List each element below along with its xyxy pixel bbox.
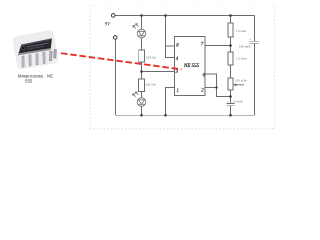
wire R1 to node pin7	[230, 37, 232, 52]
capacitor C2 10 мкФ	[227, 103, 235, 105]
wire pin 7 to node between R1 R2	[205, 45, 231, 47]
printed text	[27, 42, 49, 47]
wire pin 8 stub	[166, 45, 175, 47]
wire node OUT to pin 3	[142, 71, 175, 73]
wire rail to LED D1	[141, 16, 143, 30]
node OUT	[140, 70, 143, 73]
svg-text:+: +	[249, 37, 251, 41]
svg-text:1: 1	[177, 89, 179, 94]
node gnd-pin1	[164, 114, 167, 117]
wire bottom rail	[116, 114, 255, 116]
wire top rail	[115, 15, 255, 17]
wire rail to pins 8 and 4	[166, 16, 175, 58]
wire cap C1 bottom down to bottom rail	[254, 43, 256, 115]
front pins	[22, 56, 24, 67]
node pin7	[229, 44, 232, 47]
wire R4 to LED D2	[141, 92, 143, 98]
battery terminal plus	[111, 14, 115, 18]
svg-text:1.5 кОм: 1.5 кОм	[236, 29, 247, 33]
IC U1 NE 555 box	[175, 37, 206, 96]
red dashed callout line	[61, 53, 182, 69]
wire rail down to R1	[230, 16, 232, 24]
svg-text:1.5 кОм: 1.5 кОм	[236, 57, 247, 61]
wire pin 2 stub	[205, 87, 217, 89]
node rail-D1	[140, 14, 143, 17]
LED D1	[133, 24, 146, 38]
svg-text:+: +	[227, 99, 229, 103]
resistor R2 1.5 кОм	[228, 52, 233, 65]
wire R2 to potentiometer	[230, 65, 232, 78]
svg-text:10 мкФ: 10 мкФ	[233, 99, 244, 103]
node pin2-pin6	[215, 86, 217, 88]
LED D2	[133, 92, 146, 106]
drawing canvas dashed frame	[89, 6, 91, 129]
node rail-R1	[229, 14, 232, 17]
potentiometer R5 100 кОм	[228, 78, 233, 90]
svg-text:220 Ом: 220 Ом	[146, 55, 156, 59]
back pins	[54, 49, 57, 58]
notch	[21, 46, 25, 49]
wire R3 to node OUT	[141, 62, 143, 72]
node rail-U1	[164, 14, 167, 17]
wire node OUT down to R4	[141, 72, 143, 80]
svg-text:9V: 9V	[105, 22, 112, 27]
junction dots	[140, 14, 232, 116]
node gnd-C2	[229, 114, 232, 117]
svg-text:NE 555: NE 555	[183, 64, 200, 69]
wire right column down to cap C1 top	[254, 16, 256, 42]
wire cap C2 to bottom rail	[230, 106, 232, 115]
svg-text:100 кОм: 100 кОм	[235, 78, 247, 82]
IC photo: DIP-8 chip	[12, 30, 59, 70]
node gnd-D2	[140, 114, 143, 117]
svg-text:100 мкФ: 100 мкФ	[239, 45, 251, 49]
node pot-cap	[229, 95, 232, 98]
wire LED D2 to bottom rail	[141, 107, 143, 116]
wire LED D1 to resistor R3	[141, 38, 143, 50]
wire pin 6 down to pin 2 net	[205, 74, 231, 97]
resistor R1 1.5 кОм	[228, 23, 233, 37]
wire battery negative down	[115, 39, 117, 115]
capacitor C1 100 мкФ	[250, 40, 259, 42]
battery terminal minus	[113, 36, 117, 40]
body slab	[18, 38, 52, 55]
wire pin 1 to ground rail	[166, 88, 175, 116]
resistor R4 220 Ом	[139, 79, 145, 92]
wire pot to node pin2	[230, 90, 232, 104]
svg-text:555: 555	[25, 78, 33, 83]
svg-text:NE: NE	[47, 74, 53, 79]
svg-text:220 Ом: 220 Ом	[145, 82, 155, 86]
resistor R3 220 Ом	[139, 50, 145, 62]
